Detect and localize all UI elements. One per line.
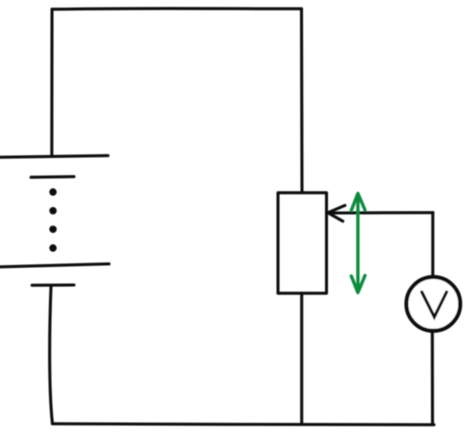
green arrowhead down: [351, 276, 365, 293]
voltmeter V1 circle: [406, 277, 460, 331]
battery B1 dot 2: [49, 207, 56, 214]
battery B1 cell2 positive plate: [0, 264, 109, 267]
wire top horizontal: [52, 7, 302, 11]
battery B1 cell2 negative plate: [32, 284, 74, 287]
potentiometer R1 body: [278, 193, 327, 293]
green adjustment arrow shaft: [356, 195, 359, 291]
battery B1 dot 1: [49, 188, 56, 195]
wiper arrowhead: [328, 205, 345, 221]
battery B1 dot 4: [49, 244, 56, 251]
voltmeter V1 label V: [422, 292, 447, 317]
wiper arrow shaft: [330, 211, 433, 214]
wire left vertical (top to battery +): [50, 9, 53, 156]
battery B1 dot 3: [49, 226, 56, 233]
wire battery negative down left side: [50, 286, 53, 423]
wire wiper junction down to voltmeter: [431, 213, 434, 278]
wire bottom horizontal: [52, 422, 434, 426]
battery B1 cell1 positive plate: [0, 156, 108, 158]
wire voltmeter bottom: [431, 330, 434, 424]
battery B1 cell1 negative plate: [31, 175, 74, 179]
wire potentiometer bottom to bottom wire: [300, 293, 303, 424]
green arrowhead up: [351, 193, 365, 210]
wire right vertical (top to potentiometer): [300, 9, 304, 193]
